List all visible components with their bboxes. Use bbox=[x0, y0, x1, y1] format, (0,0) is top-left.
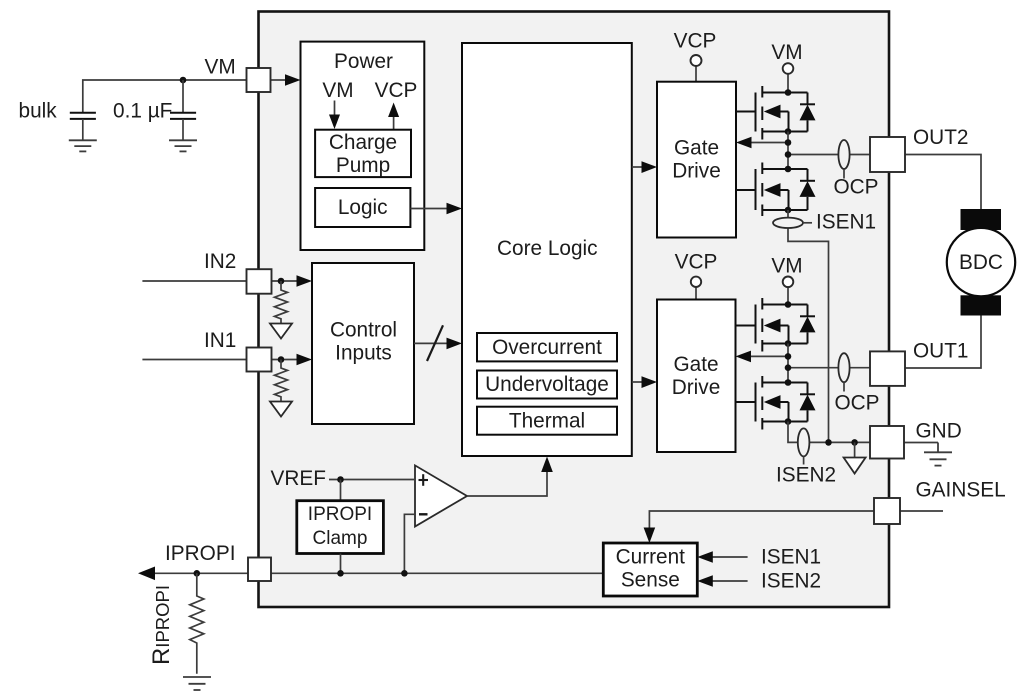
wire IN2 input bbox=[142, 280, 246, 282]
svg-text:Drive: Drive bbox=[672, 160, 721, 183]
sense element ISEN2 ellipse bbox=[798, 428, 810, 464]
label ISEN1 at Current Sense bbox=[761, 546, 821, 569]
pin GAINSEL bbox=[874, 498, 900, 524]
label OCP1 bbox=[833, 176, 878, 199]
wire IPROPI Clamp to IPROPI net bbox=[340, 554, 342, 574]
svg-text:Control: Control bbox=[330, 319, 397, 342]
pin IN2 bbox=[247, 269, 272, 294]
svg-text:OCP: OCP bbox=[833, 176, 878, 199]
svg-text:VM: VM bbox=[322, 79, 353, 102]
comparator U1 bbox=[415, 465, 467, 526]
wire GND pin to ground bbox=[904, 442, 938, 444]
wire feedback to Gate Drive 1 with arrow bbox=[736, 137, 788, 149]
svg-text:Overcurrent: Overcurrent bbox=[492, 336, 602, 359]
pin GND bbox=[870, 426, 904, 459]
label VM (inside Power) bbox=[322, 79, 353, 102]
capacitor C2 0.1 uF bbox=[170, 80, 196, 140]
svg-text:Thermal: Thermal bbox=[509, 409, 585, 432]
diode D1 body bbox=[800, 93, 816, 132]
pin OUT2 bbox=[870, 137, 905, 172]
wire comparator output to Core Logic with arrow bbox=[467, 457, 553, 497]
node VM junction dot bbox=[180, 77, 187, 84]
sense element OCP2 ellipse bbox=[838, 353, 849, 391]
label VM pin name bbox=[205, 56, 236, 79]
svg-text:ISEN1: ISEN1 bbox=[816, 211, 876, 234]
ground below C1 bbox=[69, 140, 97, 151]
svg-text:BDC: BDC bbox=[959, 251, 1003, 274]
label VM terminal half-bridge 2 bbox=[771, 254, 802, 277]
wire ISEN2 into Current Sense with arrow bbox=[697, 575, 747, 587]
label OUT2 bbox=[913, 126, 968, 149]
node OUT2 dot bbox=[785, 151, 792, 158]
ground symbol at GND pin bbox=[924, 443, 952, 466]
terminal VCP1 circle bbox=[691, 55, 702, 82]
terminal VCP2 circle bbox=[691, 277, 701, 300]
block Undervoltage bbox=[477, 371, 617, 399]
label OUT1 bbox=[913, 340, 968, 363]
wire VREF to comparator plus input bbox=[329, 479, 415, 481]
svg-text:Logic: Logic bbox=[338, 196, 388, 219]
pin IN1 bbox=[247, 348, 272, 372]
block Gate Drive 2 bbox=[657, 300, 736, 453]
pin IPROPI bbox=[248, 558, 271, 582]
ground arrow below R_IN1 bbox=[270, 402, 292, 417]
svg-text:Clamp: Clamp bbox=[313, 528, 368, 549]
svg-text:Inputs: Inputs bbox=[335, 342, 392, 365]
svg-text:OUT2: OUT2 bbox=[913, 126, 968, 149]
wire switch node 2 vertical bbox=[787, 132, 789, 170]
wire feedback to Gate Drive 2 with arrow bbox=[736, 351, 789, 363]
node Q4 drain dot bbox=[785, 379, 792, 386]
label IPROPI bbox=[165, 542, 236, 565]
block Power bbox=[301, 42, 425, 250]
label bulk bbox=[19, 99, 58, 122]
transistor Q3 high-side bbox=[736, 298, 808, 352]
svg-text:ISEN2: ISEN2 bbox=[761, 570, 821, 593]
svg-text:IPROPI: IPROPI bbox=[165, 542, 236, 565]
node feedback dot 1 bbox=[785, 139, 792, 146]
svg-text:IN1: IN1 bbox=[204, 329, 236, 352]
wire GAINSEL stub bbox=[900, 510, 943, 512]
wire Core Logic to Gate Drive 1 with arrow bbox=[632, 161, 657, 173]
label ISEN2 at Current Sense bbox=[761, 570, 821, 593]
block Core Logic bbox=[462, 43, 632, 456]
ground below C2 bbox=[169, 140, 197, 151]
diode D4 body bbox=[800, 383, 816, 422]
svg-text:VM: VM bbox=[771, 254, 802, 277]
node Q2 source dot bbox=[785, 207, 792, 214]
wire OUT2 to motor bbox=[905, 155, 981, 210]
capacitor C1 bulk bbox=[70, 113, 96, 141]
pin OUT1 bbox=[870, 351, 905, 386]
arrow IPROPI output (left) bbox=[138, 567, 155, 581]
svg-text:Sense: Sense bbox=[621, 569, 680, 592]
wire comparator minus input net bbox=[404, 514, 415, 573]
node feedback dot 2 bbox=[785, 353, 792, 360]
block Overcurrent bbox=[477, 333, 617, 361]
wire IN2 pin to Control Inputs with arrow bbox=[272, 275, 313, 287]
svg-text:Power: Power bbox=[334, 50, 393, 73]
svg-text:ISEN2: ISEN2 bbox=[776, 463, 836, 486]
label VCP terminal 1 bbox=[674, 30, 717, 53]
wire Q2 source to ISEN1 jog bbox=[788, 210, 829, 442]
node IPROPI clamp dot bbox=[337, 570, 344, 577]
ground arrow below R_IN2 bbox=[270, 324, 292, 339]
transistor Q2 low-side bbox=[736, 163, 808, 217]
node Q4 source dot bbox=[785, 418, 792, 425]
block Charge Pump bbox=[315, 130, 411, 177]
svg-text:VREF: VREF bbox=[271, 467, 326, 490]
label VREF bbox=[271, 467, 326, 490]
svg-text:IPROPI: IPROPI bbox=[308, 504, 372, 525]
ground below RIPROPI bbox=[183, 677, 211, 690]
svg-text:Core Logic: Core Logic bbox=[497, 237, 598, 260]
terminal VM1 circle bbox=[783, 63, 794, 92]
svg-text:VCP: VCP bbox=[674, 30, 717, 53]
label ISEN2 bbox=[776, 463, 836, 486]
wire VREF down to IPROPI Clamp bbox=[340, 480, 342, 501]
node Q3 source dot bbox=[785, 340, 792, 347]
wire VM input net (bulk caps to VM pin) bbox=[83, 80, 247, 113]
svg-text:Gate: Gate bbox=[673, 353, 718, 376]
wire ISEN1 into Current Sense with arrow bbox=[697, 551, 747, 563]
svg-text:bulk: bulk bbox=[19, 99, 58, 122]
svg-text:Charge: Charge bbox=[329, 131, 397, 154]
resistor RIPROPI bbox=[190, 573, 204, 674]
svg-text:Gate: Gate bbox=[674, 137, 719, 160]
IC body outline bbox=[259, 12, 890, 608]
block Control Inputs bbox=[312, 263, 414, 424]
wire IN1 pin to Control Inputs with arrow bbox=[272, 354, 313, 366]
wire IPROPI net horizontal bbox=[154, 572, 603, 574]
svg-text:IN2: IN2 bbox=[204, 250, 236, 273]
motor BDC bbox=[947, 209, 1015, 316]
svg-text:GND: GND bbox=[916, 419, 962, 442]
wire Q4 source to GND pin bbox=[788, 422, 870, 443]
node VREF junction dot bbox=[337, 476, 344, 483]
label OCP2 bbox=[834, 391, 879, 414]
terminal VM2 circle bbox=[783, 277, 794, 305]
node IN2 pulldown junction bbox=[278, 278, 285, 285]
label IN1 bbox=[204, 329, 236, 352]
svg-text:GAINSEL: GAINSEL bbox=[916, 478, 1006, 501]
wire Control Inputs bus to Core Logic with arrow bbox=[414, 338, 462, 350]
svg-text:0.1 µF: 0.1 µF bbox=[113, 99, 172, 122]
block Current Sense bbox=[603, 543, 697, 596]
node OUT1 dot bbox=[785, 364, 792, 371]
label VCP (inside Power) bbox=[375, 79, 418, 102]
resistor R_IN2 pulldown bbox=[275, 281, 288, 323]
wire OUT2 node to pin bbox=[788, 154, 870, 156]
node RIPROPI junction dot bbox=[194, 570, 201, 577]
wire Core Logic to Gate Drive 2 with arrow bbox=[632, 376, 657, 388]
svg-text:RIPROPI: RIPROPI bbox=[148, 585, 175, 665]
block Gate Drive 1 bbox=[657, 82, 736, 238]
svg-text:VCP: VCP bbox=[675, 251, 718, 274]
svg-text:OUT1: OUT1 bbox=[913, 340, 968, 363]
block Thermal bbox=[477, 407, 617, 435]
diode D3 body bbox=[800, 305, 816, 344]
sense element ISEN1 ellipse bbox=[773, 218, 812, 228]
wire VM pin to Power block with arrow bbox=[271, 74, 301, 86]
label IN2 bbox=[204, 250, 236, 273]
label GND bbox=[916, 419, 962, 442]
svg-text:Pump: Pump bbox=[336, 154, 390, 177]
transistor Q1 high-side bbox=[736, 86, 808, 140]
label VM terminal half-bridge 1 bbox=[771, 41, 802, 64]
block Logic bbox=[315, 188, 410, 227]
label VCP terminal 2 bbox=[675, 251, 718, 274]
svg-text:OCP: OCP bbox=[834, 391, 879, 414]
node Q1 source dot bbox=[785, 128, 792, 135]
wire OUT1 to motor bbox=[905, 315, 981, 368]
wire VM arrow into Charge Pump bbox=[329, 101, 340, 130]
value label 0.1 uF bbox=[113, 99, 172, 122]
svg-text:VM: VM bbox=[205, 56, 236, 79]
block IPROPI Clamp bbox=[297, 501, 384, 554]
svg-text:Current: Current bbox=[616, 546, 686, 569]
wire OUT1 node to pin bbox=[788, 367, 870, 369]
node Q1 drain dot bbox=[785, 89, 792, 96]
sense element OCP1 ellipse bbox=[838, 140, 849, 179]
node ground tap junction bbox=[851, 439, 858, 446]
resistor R_IN1 pulldown bbox=[275, 360, 288, 402]
label RIPROPI rotated bbox=[148, 585, 175, 665]
label GAINSEL bbox=[916, 478, 1006, 501]
node Q3 drain dot bbox=[785, 301, 792, 308]
label ISEN1 bbox=[816, 211, 876, 234]
wire IN1 input bbox=[142, 359, 246, 361]
node comparator minus dot bbox=[401, 570, 408, 577]
wire GAINSEL to Current Sense with arrow bbox=[644, 511, 874, 543]
svg-text:Drive: Drive bbox=[672, 376, 721, 399]
svg-text:VCP: VCP bbox=[375, 79, 418, 102]
node ISEN column junction bbox=[825, 439, 832, 446]
svg-text:Undervoltage: Undervoltage bbox=[485, 373, 609, 396]
node IN1 pulldown junction bbox=[278, 356, 285, 363]
wire VCP arrow out of Charge Pump bbox=[388, 103, 399, 130]
diode D2 body bbox=[800, 169, 816, 210]
node Q2 drain dot bbox=[785, 166, 792, 173]
ground arrow below GND net bbox=[844, 442, 866, 473]
wire Logic to Core Logic with arrow bbox=[410, 203, 462, 215]
svg-text:ISEN1: ISEN1 bbox=[761, 546, 821, 569]
bus width slash bbox=[427, 325, 443, 361]
transistor Q4 low-side bbox=[736, 376, 808, 430]
wire switch node 1 vertical bbox=[787, 344, 789, 383]
pin VM bbox=[247, 68, 271, 92]
svg-text:VM: VM bbox=[771, 41, 802, 64]
